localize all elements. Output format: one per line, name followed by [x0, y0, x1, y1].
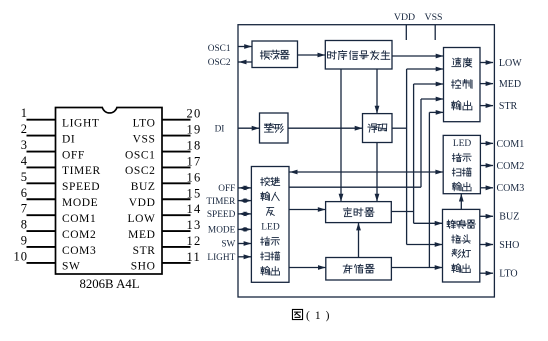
block timing signal generator 时序信号发生	[325, 41, 392, 70]
svg-text:COM3: COM3	[497, 183, 525, 194]
svg-text:MED: MED	[128, 229, 155, 241]
svg-text:SPEED: SPEED	[62, 181, 100, 193]
svg-text:OSC1: OSC1	[125, 149, 156, 161]
wire LIGHT to key block	[238, 256, 251, 258]
svg-text:(1): (1)	[306, 310, 334, 322]
svg-text:6: 6	[21, 186, 28, 200]
svg-text:OSC2: OSC2	[125, 165, 156, 177]
svg-text:1: 1	[21, 106, 28, 120]
wire SW to key block	[238, 243, 251, 245]
bus timer vertical	[413, 84, 415, 223]
wire key block to speed bus	[289, 186, 421, 188]
bus key vertical	[420, 99, 422, 187]
svg-text:LTO: LTO	[133, 118, 156, 130]
wire scan line key-block to LED-block (double arrow)	[289, 171, 443, 173]
wire key block to timer	[289, 209, 326, 211]
svg-text:12: 12	[187, 234, 202, 248]
IC pin 14 lead	[162, 214, 191, 216]
wire LED output COM1	[480, 142, 493, 144]
wire LED output COM2	[480, 165, 493, 167]
wire buzzer output LTO	[480, 272, 493, 274]
svg-text:14: 14	[187, 202, 202, 216]
svg-text:MODE: MODE	[62, 197, 98, 209]
svg-text:TIMER: TIMER	[62, 165, 101, 177]
svg-text:SW: SW	[62, 261, 80, 273]
svg-text:LED: LED	[261, 222, 280, 232]
svg-text:STR: STR	[499, 101, 518, 112]
caption 图(1)	[292, 309, 302, 319]
IC pin 19 lead	[162, 135, 191, 137]
svg-text:LIGHT: LIGHT	[207, 253, 235, 263]
wire key block to memory	[289, 267, 326, 269]
svg-text:LOW: LOW	[499, 58, 522, 69]
svg-text:8206B A4L: 8206B A4L	[79, 277, 139, 291]
wire decoder right to bus	[392, 127, 407, 129]
wire timing to timer (down)	[340, 69, 342, 202]
IC pin 18 lead	[162, 151, 191, 153]
wire speed-control output MED	[480, 83, 493, 85]
svg-text:LIGHT: LIGHT	[62, 118, 100, 130]
svg-text:LOW: LOW	[128, 213, 156, 225]
IC pin 4 lead	[27, 166, 56, 168]
svg-text:SPEED: SPEED	[207, 210, 236, 220]
wire OSC2 out of oscillator	[238, 61, 252, 63]
svg-text:9: 9	[21, 233, 28, 247]
IC pin 7 lead	[27, 214, 56, 216]
wire VDD stub	[405, 25, 407, 40]
svg-text:COM2: COM2	[62, 229, 96, 241]
svg-text:OFF: OFF	[218, 184, 235, 194]
svg-text:8: 8	[21, 218, 28, 232]
wire OSC1 into oscillator	[238, 46, 252, 48]
IC notch	[103, 106, 116, 109]
svg-text:5: 5	[21, 170, 28, 184]
svg-text:DI: DI	[215, 124, 225, 134]
wire bus to speed-control in2	[407, 68, 444, 70]
svg-text:SHO: SHO	[131, 261, 156, 273]
IC U1 8206B A4L body	[56, 108, 163, 275]
bus decoder vertical	[406, 69, 408, 245]
svg-text:SHO: SHO	[499, 240, 519, 251]
wire VSS stub	[434, 25, 436, 40]
svg-text:11: 11	[187, 250, 201, 264]
wire decoder to timer (down)	[376, 143, 378, 202]
svg-text:10: 10	[14, 249, 29, 263]
svg-text:4: 4	[21, 154, 28, 168]
svg-text:VDD: VDD	[129, 197, 156, 209]
svg-text:17: 17	[187, 154, 202, 168]
IC pin 20 lead	[162, 119, 191, 121]
svg-text:2: 2	[21, 122, 28, 136]
wire memory to timer (up arrow)	[358, 223, 360, 258]
block buzzer/shake/lamp output 蜂鸣器摇头彩灯输出	[443, 209, 480, 282]
wire bus to buzzer in1	[414, 222, 443, 224]
block timer 定时器	[326, 202, 392, 223]
wire speed-control output LOW	[480, 62, 493, 64]
block speed control output 速度控制输出	[444, 48, 481, 122]
wire bus to buzzer in2	[407, 244, 443, 246]
wire shaper to decoder	[288, 127, 363, 129]
outer boundary box	[238, 25, 494, 297]
wire buzzer output SHO	[480, 244, 493, 246]
svg-text:TIMER: TIMER	[206, 197, 236, 207]
svg-text:VSS: VSS	[425, 12, 443, 23]
block memory 存储器	[326, 258, 392, 281]
wire timer right to bus	[391, 211, 413, 213]
svg-text:COM3: COM3	[62, 245, 96, 257]
wire TIMER to key block	[238, 200, 251, 202]
wire MODE to key block	[238, 228, 251, 230]
wire buzzer to LED block (up arrow)	[460, 194, 462, 210]
block LED indicator scan output LED指示扫描输出	[443, 135, 480, 193]
wire bus to speed-control in5	[429, 111, 443, 113]
svg-text:DI: DI	[62, 133, 75, 145]
svg-text:MODE: MODE	[208, 226, 236, 236]
wire bus to speed-control in4	[421, 98, 444, 100]
svg-text:STR: STR	[133, 245, 156, 257]
svg-text:OSC2: OSC2	[208, 58, 231, 68]
svg-text:18: 18	[187, 139, 202, 153]
wire LED output COM3	[480, 187, 493, 189]
svg-text:COM1: COM1	[62, 213, 96, 225]
wire speed-control output STR	[480, 105, 493, 107]
IC pin 17 lead	[162, 166, 191, 168]
svg-text:7: 7	[21, 202, 28, 216]
wire bus to speed-control in3	[414, 83, 444, 85]
IC pin 13 lead	[162, 230, 191, 232]
svg-text:OFF: OFF	[62, 149, 85, 161]
svg-text:VSS: VSS	[133, 133, 156, 145]
wire oscillator to timing	[298, 54, 326, 56]
svg-text:BUZ: BUZ	[131, 181, 156, 193]
svg-text:VDD: VDD	[394, 12, 415, 23]
IC pin 3 lead	[27, 151, 56, 153]
svg-text:COM1: COM1	[497, 139, 525, 150]
svg-text:13: 13	[187, 218, 202, 232]
svg-text:3: 3	[21, 138, 28, 152]
svg-text:MED: MED	[499, 79, 521, 90]
svg-text:LTO: LTO	[499, 269, 517, 280]
block shaper 整形	[260, 113, 289, 143]
IC pin 9 lead	[27, 246, 56, 248]
svg-text:SW: SW	[221, 240, 235, 250]
IC pin 10 lead	[27, 262, 56, 264]
wire timing to speed-control	[392, 55, 444, 57]
wire buzzer output BUZ	[480, 215, 493, 217]
IC pin 8 lead	[27, 230, 56, 232]
svg-text:20: 20	[187, 107, 202, 121]
IC pin 2 lead	[27, 135, 56, 137]
svg-text:15: 15	[187, 186, 202, 200]
IC pin 5 lead	[27, 182, 56, 184]
wire DI input	[238, 127, 260, 129]
wire OFF to key block	[238, 187, 251, 189]
svg-text:LED: LED	[453, 139, 472, 149]
wire timing to decoder (down)	[376, 69, 378, 114]
IC pin 15 lead	[162, 198, 191, 200]
svg-text:COM2: COM2	[497, 161, 525, 172]
block oscillator 振荡器	[252, 41, 298, 68]
block key-input & LED scan 按键输入及LED指示扫描输出	[251, 167, 289, 283]
bus memory vertical	[428, 112, 430, 267]
block decoder 译码	[363, 114, 393, 143]
IC pin 16 lead	[162, 182, 191, 184]
IC pin 12 lead	[162, 246, 191, 248]
IC pin 1 lead	[27, 119, 56, 121]
svg-text:BUZ: BUZ	[499, 212, 519, 223]
svg-text:16: 16	[187, 170, 202, 184]
wire SPEED to key block	[238, 213, 251, 215]
wire memory to buzzer	[391, 267, 442, 269]
svg-text:OSC1: OSC1	[208, 44, 231, 54]
IC pin 11 lead	[162, 262, 191, 264]
IC pin 6 lead	[27, 198, 56, 200]
svg-text:19: 19	[187, 123, 202, 137]
